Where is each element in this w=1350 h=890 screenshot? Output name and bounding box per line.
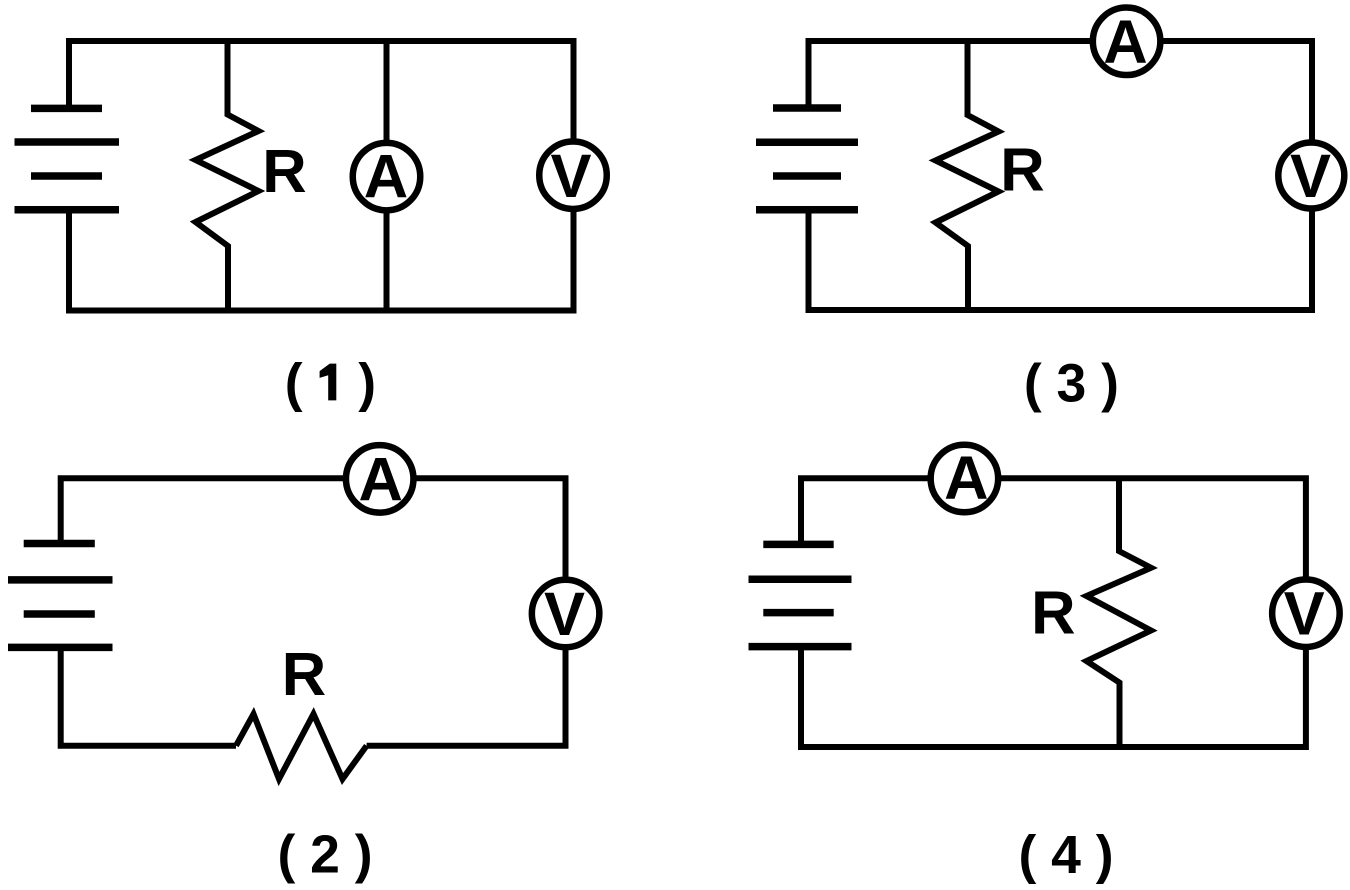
svg-text:V: V: [550, 142, 591, 211]
svg-text:V: V: [1284, 580, 1325, 649]
battery B1 plate 2 (long): [15, 138, 120, 146]
battery B4 plate 2 (long): [749, 576, 852, 584]
ammeter A (circuit 1): [353, 143, 421, 211]
svg-text:R: R: [262, 137, 306, 206]
wire: circuit 3 outer loop (top, right, bottom rails and battery leads): [809, 41, 1313, 310]
wire: circuit 2 bottom-left rail and battery bottom lead: [61, 649, 236, 746]
battery B3 plate 4 (long): [756, 206, 858, 214]
svg-text:R: R: [282, 640, 326, 709]
battery B2 plate 4 (long): [8, 644, 113, 652]
svg-text:A: A: [364, 143, 408, 212]
battery B4 plate 1 (short): [763, 541, 833, 549]
voltmeter V (circuit 2): [532, 580, 600, 648]
wire: circuit 2 outer loop top/right/bottom-right rails: [61, 478, 566, 745]
resistor R (circuit 2, horizontal zigzag in bottom rail): [236, 714, 367, 779]
resistor R (circuit 4, vertical zigzag branch): [1087, 478, 1152, 747]
battery B4: [749, 544, 852, 646]
battery B3 plate 3 (short): [773, 172, 841, 180]
wire: circuit 1 outer loop (top, right, bottom rails and battery leads): [69, 41, 574, 311]
svg-text:V: V: [544, 580, 585, 649]
wire: circuit 4 outer loop (top, right, bottom rails and battery leads): [801, 478, 1306, 747]
voltmeter V (circuit 1): [539, 141, 607, 209]
resistor R (circuit 3, vertical zigzag branch): [936, 41, 999, 310]
battery B1 plate 4 (long): [15, 206, 120, 214]
svg-text:A: A: [1103, 8, 1147, 77]
battery B2 plate 2 (long): [8, 576, 113, 584]
svg-text:R: R: [1031, 579, 1075, 648]
svg-text:A: A: [358, 445, 402, 514]
svg-text:A: A: [944, 444, 988, 513]
svg-text:( 2 ): ( 2 ): [277, 826, 372, 885]
ammeter A (circuit 3): [1093, 8, 1161, 76]
battery B3: [756, 108, 858, 210]
svg-text:R: R: [1000, 136, 1044, 205]
battery B1: [15, 108, 120, 209]
battery B1 plate 3 (short): [31, 172, 102, 180]
wire: circuit 1 ammeter branch: [384, 41, 390, 311]
battery B3 plate 1 (short): [773, 104, 841, 112]
voltmeter V (circuit 3): [1278, 143, 1344, 209]
ammeter A (circuit 4): [931, 445, 999, 513]
svg-text:( 3 ): ( 3 ): [1024, 354, 1119, 413]
svg-text:V: V: [1290, 142, 1331, 211]
battery B2: [8, 544, 113, 648]
battery B2 plate 3 (short): [24, 610, 95, 618]
battery B4 plate 3 (short): [763, 609, 833, 617]
svg-text:): ): [358, 354, 376, 413]
battery B1 plate 1 (short): [31, 105, 102, 113]
voltmeter V (circuit 4): [1272, 579, 1340, 647]
ammeter A (circuit 2): [346, 445, 414, 513]
battery B2 plate 1 (short): [24, 540, 95, 548]
battery B4 plate 4 (long): [749, 643, 852, 651]
resistor R (circuit 1, vertical zigzag branch): [196, 41, 259, 311]
svg-text:(: (: [285, 354, 303, 413]
battery B3 plate 2 (long): [756, 138, 858, 146]
svg-text:( 4 ): ( 4 ): [1018, 826, 1113, 885]
